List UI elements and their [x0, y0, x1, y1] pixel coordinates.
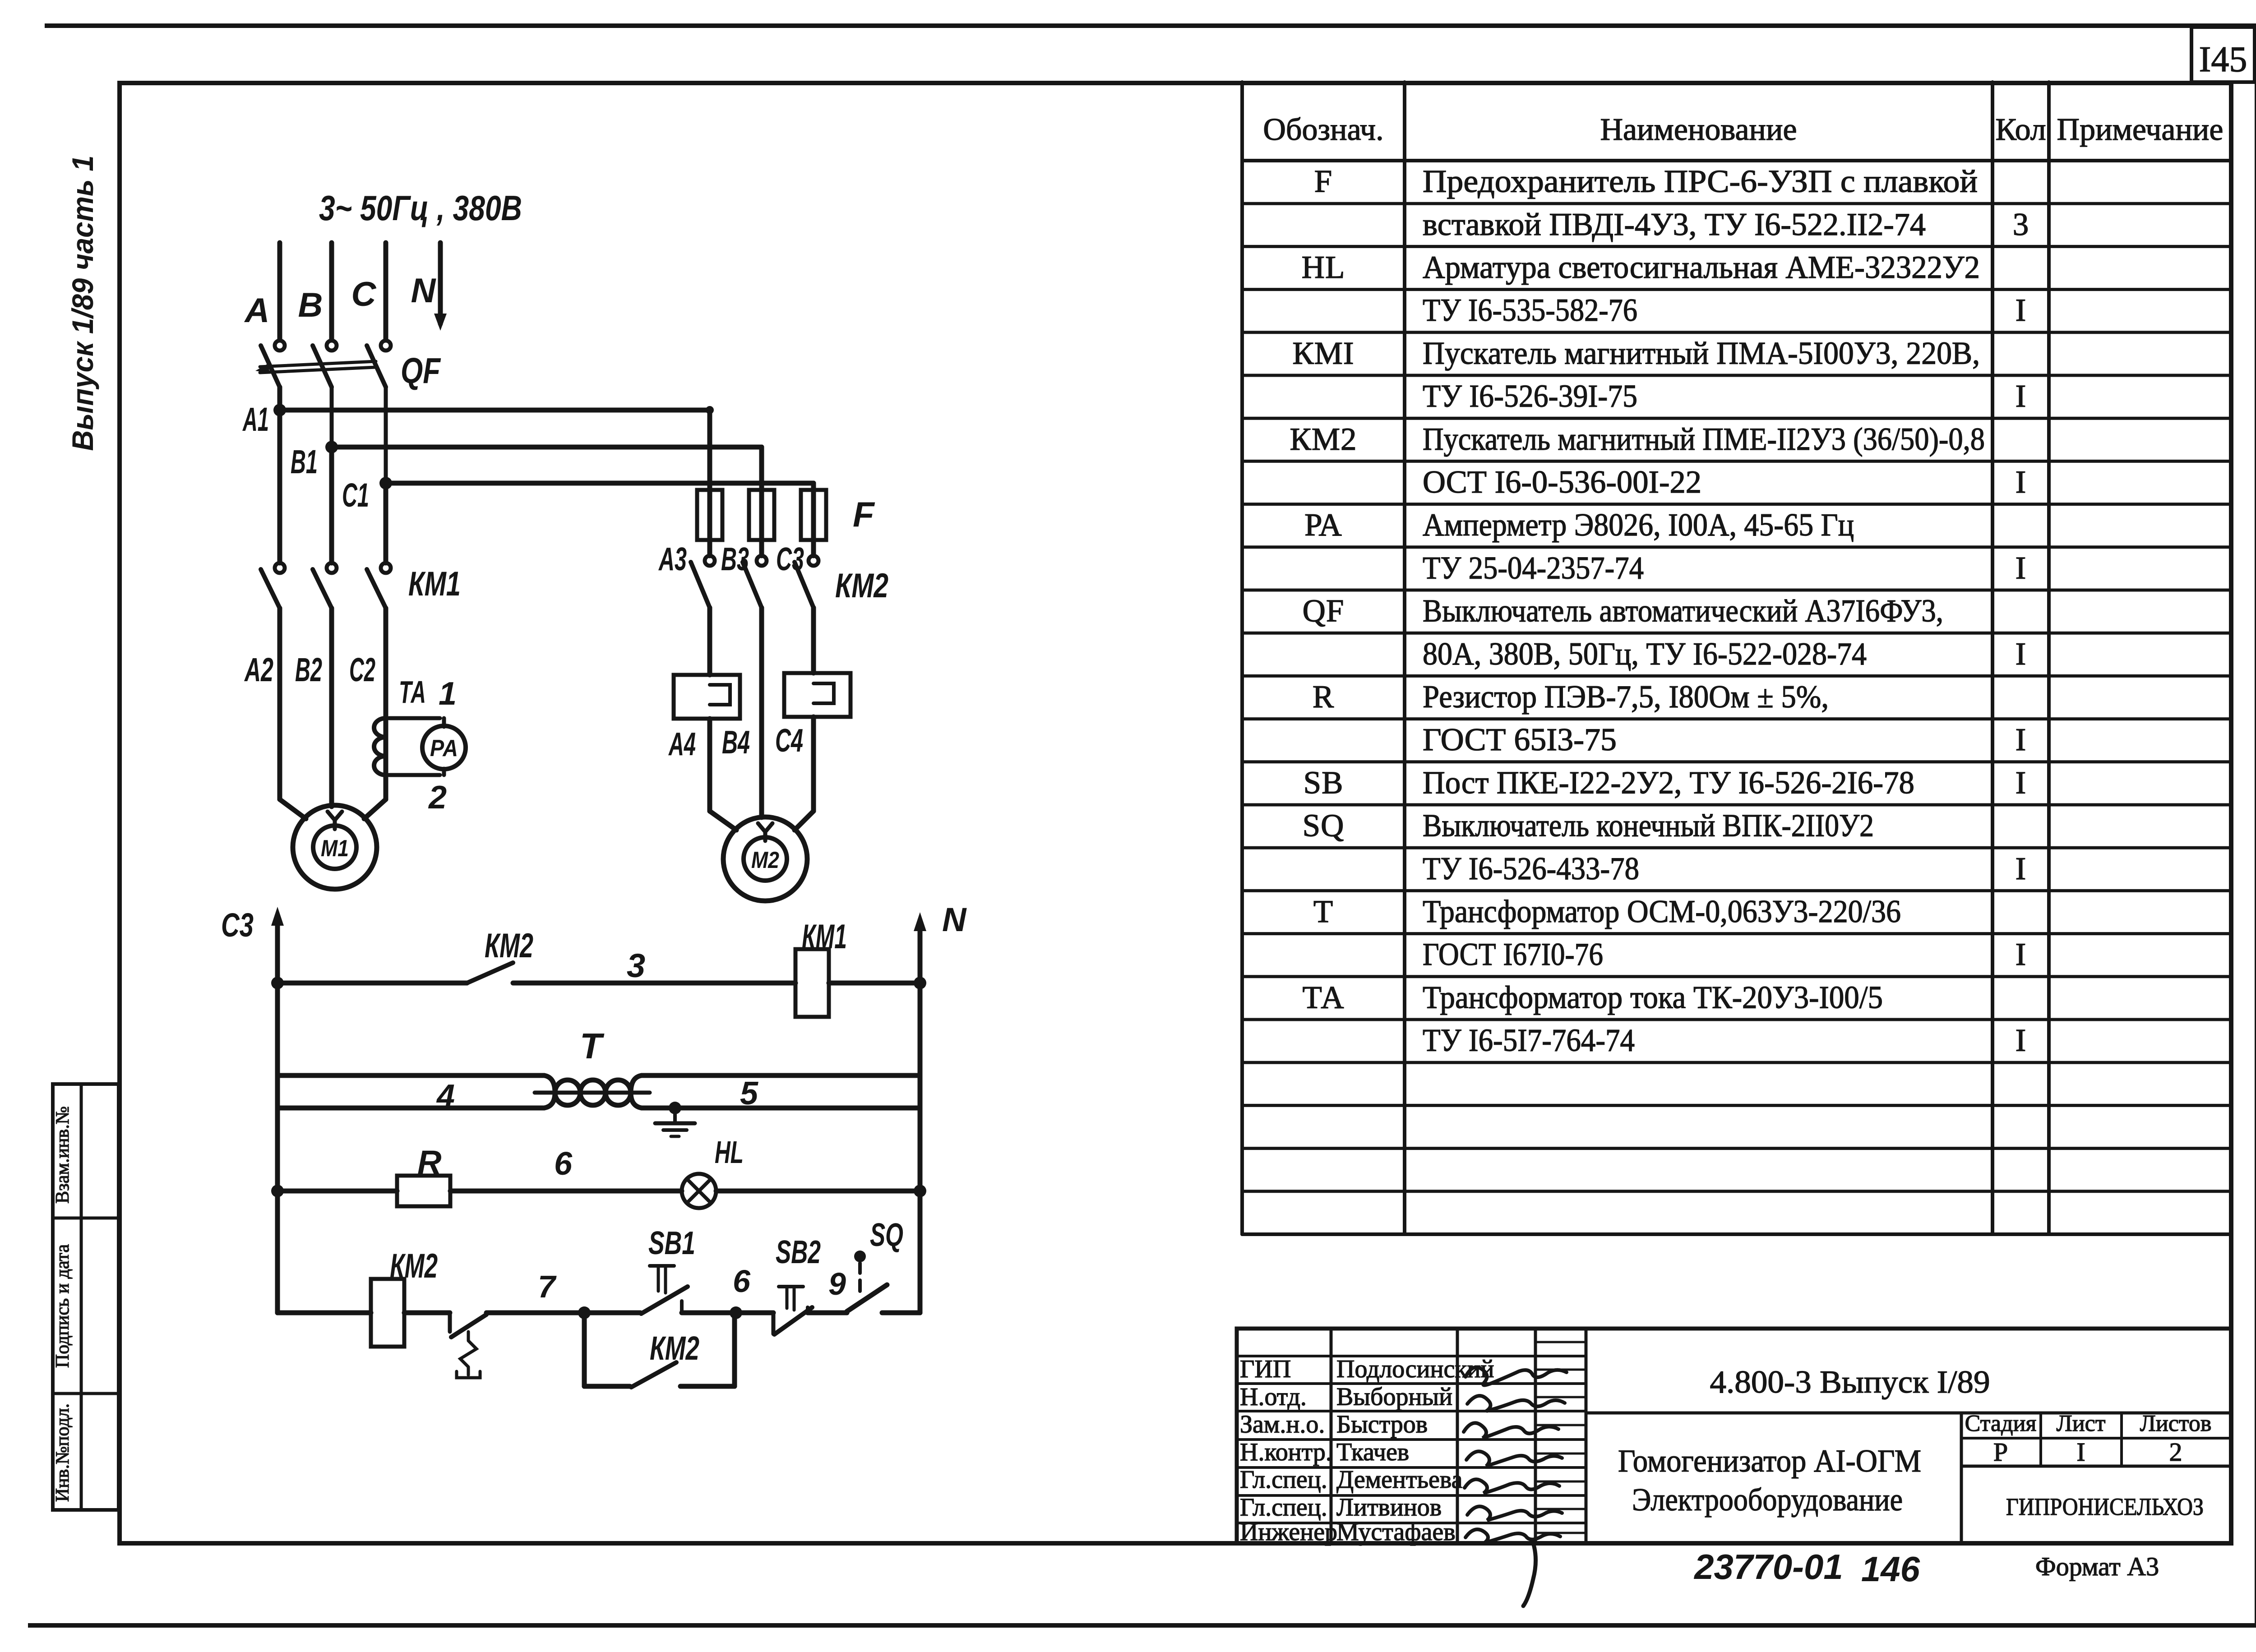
svg-text:Гл.спец.: Гл.спец.: [1240, 1466, 1327, 1494]
svg-text:I: I: [2016, 550, 2026, 586]
svg-text:I: I: [2016, 637, 2026, 672]
svg-text:В1: В1: [291, 443, 318, 480]
svg-text:23770-01: 23770-01: [1693, 1547, 1843, 1587]
svg-text:ТУ I6-535-582-76: ТУ I6-535-582-76: [1423, 293, 1637, 328]
wire A3 to heater: [707, 608, 712, 675]
motor M2: [723, 817, 807, 901]
svg-text:SВ1: SВ1: [648, 1225, 695, 1261]
svg-text:Предохранитель ПРС-6-УЗП с пла: Предохранитель ПРС-6-УЗП с плавкой: [1423, 164, 1978, 199]
svg-text:Выключатель конечный ВПК-2II0У: Выключатель конечный ВПК-2II0У2: [1423, 808, 1874, 844]
svg-text:КМ1: КМ1: [802, 918, 847, 956]
svg-text:Наименование: Наименование: [1600, 112, 1797, 147]
svg-text:I: I: [2016, 765, 2026, 800]
svg-text:РА: РА: [430, 735, 458, 761]
svg-text:А1: А1: [242, 401, 269, 438]
svg-text:Инв.№подл.: Инв.№подл.: [52, 1403, 73, 1502]
wire C QF to KM1: [384, 387, 388, 483]
node B1: [325, 441, 338, 453]
svg-text:R: R: [1313, 679, 1334, 715]
limit switch SQ: [854, 1251, 866, 1262]
parts table grid: [1240, 82, 1244, 1234]
svg-text:ОСТ I6-0-536-00I-22: ОСТ I6-0-536-00I-22: [1423, 465, 1701, 500]
svg-text:Н.отд.: Н.отд.: [1240, 1383, 1307, 1411]
thermal element KK A-phase: [674, 675, 740, 719]
wire B1 to fuse branch: [332, 445, 762, 450]
svg-text:QF: QF: [1303, 594, 1345, 629]
svg-text:QF: QF: [401, 351, 441, 391]
contactor KM2 pole: [809, 556, 818, 566]
wire 3: [271, 977, 284, 989]
svg-text:С: С: [351, 275, 377, 314]
svg-text:Подпись и дата: Подпись и дата: [52, 1244, 73, 1368]
svg-text:Пост ПКЕ-I22-2У2, ТУ I6-526-2I: Пост ПКЕ-I22-2У2, ТУ I6-526-2I6-78: [1423, 765, 1914, 800]
svg-text:4: 4: [436, 1078, 455, 1114]
star point M1: [328, 812, 342, 829]
wire C3 to heater: [811, 608, 816, 673]
svg-text:146: 146: [1861, 1549, 1920, 1589]
contactor KM1 pole: [275, 563, 285, 573]
svg-text:2: 2: [2169, 1437, 2182, 1467]
wire A4 to motor M2: [707, 719, 712, 811]
svg-text:С3: С3: [776, 541, 804, 577]
star point M2: [758, 823, 772, 841]
svg-text:Мустафаев: Мустафаев: [1336, 1518, 1456, 1546]
svg-text:Дементьева: Дементьева: [1336, 1466, 1463, 1494]
svg-text:I: I: [2016, 722, 2026, 757]
svg-text:3: 3: [2013, 207, 2029, 242]
motor M1: [293, 805, 377, 889]
svg-text:Инженер: Инженер: [1240, 1518, 1337, 1546]
svg-text:R: R: [417, 1144, 441, 1181]
wire C4 to motor M2: [811, 717, 816, 811]
phase bus B: [329, 243, 334, 340]
neutral bus N with arrow: [438, 243, 443, 324]
left stamp column box: [53, 1084, 119, 1510]
svg-text:N: N: [411, 272, 437, 310]
svg-text:А4: А4: [668, 726, 696, 762]
svg-text:КМI: КМI: [1292, 336, 1354, 371]
svg-text:С3: С3: [221, 906, 254, 944]
svg-text:Гл.спец.: Гл.спец.: [1240, 1494, 1327, 1522]
svg-text:Выключатель автоматический А37: Выключатель автоматический А37I6ФУ3,: [1423, 594, 1943, 629]
svg-text:Литвинов: Литвинов: [1336, 1494, 1442, 1522]
node C1: [379, 477, 392, 489]
control rail C3 with up arrow: [275, 915, 280, 1313]
holding contact KM2 loop: [582, 1313, 587, 1386]
wire C2 to motor M1: [384, 608, 388, 799]
svg-text:7: 7: [538, 1269, 557, 1304]
svg-text:КМ2: КМ2: [650, 1329, 699, 1367]
svg-text:В2: В2: [295, 651, 322, 688]
contactor coil KM1: [795, 949, 829, 1017]
svg-text:С2: С2: [349, 651, 375, 688]
svg-text:ГОСТ I67I0-76: ГОСТ I67I0-76: [1423, 937, 1603, 972]
svg-text:Кол: Кол: [1995, 112, 2046, 147]
svg-text:М1: М1: [321, 835, 349, 862]
svg-text:Выпуск 1/89 часть 1: Выпуск 1/89 часть 1: [66, 156, 99, 451]
control rail N with up arrow: [918, 920, 923, 1313]
phase bus C: [384, 243, 388, 340]
svg-text:4.800-3 Выпуск I/89: 4.800-3 Выпуск I/89: [1710, 1365, 1990, 1400]
svg-text:HL: HL: [1302, 250, 1345, 285]
top border bar: [45, 23, 2256, 28]
svg-text:Р: Р: [1993, 1437, 2008, 1467]
svg-text:КМ2: КМ2: [835, 567, 888, 605]
svg-text:I: I: [2016, 1023, 2026, 1058]
svg-text:80А, 380В, 50Гц, ТУ I6-522-028: 80А, 380В, 50Гц, ТУ I6-522-028-74: [1423, 637, 1867, 672]
svg-text:F: F: [1314, 164, 1333, 199]
current transformer TA: [374, 718, 386, 775]
svg-text:Выборный: Выборный: [1336, 1383, 1452, 1411]
wire 6 row: [271, 1185, 284, 1197]
svg-text:ТУ I6-526-433-78: ТУ I6-526-433-78: [1423, 851, 1639, 886]
svg-text:Лист: Лист: [2057, 1411, 2106, 1436]
breaker QF pole contact: [327, 341, 337, 351]
svg-text:1: 1: [439, 676, 457, 712]
svg-text:SQ: SQ: [1303, 808, 1345, 844]
contactor KM2 pole: [757, 556, 767, 566]
svg-text:SВ: SВ: [1304, 765, 1344, 800]
fuse F: [697, 490, 722, 540]
svg-text:КМ1: КМ1: [408, 565, 461, 603]
svg-text:вставкой ПВДI-4У3, ТУ I6-522.: вставкой ПВДI-4У3, ТУ I6-522.II2-74: [1423, 207, 1926, 242]
svg-text:I: I: [2016, 379, 2026, 414]
fuse F: [801, 490, 826, 540]
contact KM2 NO in wire 3: [467, 963, 513, 983]
svg-text:Электрооборудование: Электрооборудование: [1632, 1482, 1903, 1518]
breaker QF pole contact: [275, 341, 285, 351]
ammeter PA: [422, 726, 466, 769]
resistor R: [397, 1176, 450, 1206]
bottom outer border: [28, 1623, 2256, 1628]
node A1: [273, 404, 286, 416]
svg-text:В4: В4: [722, 724, 750, 761]
contactor KM1 pole: [381, 563, 391, 573]
svg-text:КМ2: КМ2: [390, 1247, 438, 1285]
svg-text:ТУ I6-5I7-764-74: ТУ I6-5I7-764-74: [1423, 1023, 1635, 1058]
sheet number box 145: [2191, 27, 2255, 82]
svg-text:I: I: [2016, 465, 2026, 500]
title block outline: [1237, 1329, 2231, 1543]
svg-text:Ткачев: Ткачев: [1336, 1438, 1409, 1466]
svg-text:КМ2: КМ2: [485, 927, 533, 965]
svg-text:Пускатель магнитный ПМА-5I00У3: Пускатель магнитный ПМА-5I00У3, 220В,: [1423, 336, 1980, 371]
svg-text:Гомогенизатор АI-ОГМ: Гомогенизатор АI-ОГМ: [1618, 1444, 1921, 1479]
svg-text:5: 5: [740, 1075, 758, 1112]
svg-text:Арматура светосигнальная АМЕ-3: Арматура светосигнальная АМЕ-32322У2: [1423, 250, 1980, 285]
svg-text:Пускатель магнитный ПМЕ-II2У3: Пускатель магнитный ПМЕ-II2У3 (36/50)-0,…: [1423, 422, 1985, 457]
transformer T primary: [277, 1073, 544, 1078]
svg-text:ГИП: ГИП: [1240, 1355, 1291, 1383]
svg-text:SQ: SQ: [870, 1217, 903, 1253]
ground on secondary: [669, 1102, 681, 1114]
wire B3 down: [759, 608, 764, 817]
svg-text:I: I: [2016, 851, 2026, 886]
svg-text:I: I: [2016, 293, 2026, 328]
contactor coil KM2: [371, 1279, 404, 1347]
svg-text:А: А: [244, 291, 270, 330]
transformer T secondary: [277, 1106, 544, 1111]
pushbutton SB1 NO: [584, 1311, 640, 1315]
svg-text:6: 6: [733, 1264, 751, 1299]
svg-text:Быстров: Быстров: [1336, 1411, 1428, 1439]
svg-text:ТУ I6-526-39I-75: ТУ I6-526-39I-75: [1423, 379, 1637, 414]
svg-text:Трансформатор тока ТК-20У3-I00: Трансформатор тока ТК-20У3-I00/5: [1423, 980, 1883, 1015]
svg-text:А3: А3: [658, 541, 687, 577]
breaker QF pole contact: [381, 341, 391, 351]
thermal release symbol: [460, 1332, 476, 1375]
svg-text:HL: HL: [715, 1135, 744, 1170]
phase bus A: [277, 243, 282, 340]
wire C1 to fuse branch: [386, 481, 814, 486]
breaker QF linkage bar: [260, 361, 376, 367]
lamp HL: [682, 1174, 716, 1208]
svg-text:В3: В3: [721, 541, 749, 577]
svg-text:Трансформатор ОСМ-0,063У3-220/: Трансформатор ОСМ-0,063У3-220/36: [1423, 894, 1901, 929]
svg-text:I: I: [2016, 937, 2026, 972]
svg-text:РА: РА: [1304, 508, 1342, 543]
bottom control row: [277, 1311, 371, 1315]
svg-text:КМ2: КМ2: [1290, 422, 1357, 457]
svg-text:3~ 50Гц , 380В: 3~ 50Гц , 380В: [319, 188, 522, 228]
wire A1 to fuse branch: [280, 408, 710, 413]
pushbutton SB2 NC: [736, 1311, 773, 1315]
fuse F: [749, 490, 774, 540]
svg-text:А2: А2: [244, 651, 273, 688]
svg-text:ТА: ТА: [399, 674, 426, 710]
svg-text:2: 2: [428, 780, 447, 816]
svg-text:ТА: ТА: [1302, 980, 1344, 1015]
contactor KM1 pole: [327, 563, 337, 573]
wire A QF to KM1: [277, 387, 282, 410]
svg-text:ТУ 25-04-2357-74: ТУ 25-04-2357-74: [1423, 550, 1644, 586]
signatures squiggles: [1465, 1367, 1567, 1385]
transformer T core: [535, 1091, 650, 1095]
svg-text:I45: I45: [2199, 40, 2247, 79]
wire A2 to motor M1: [277, 608, 282, 799]
svg-text:SВ2: SВ2: [776, 1234, 821, 1270]
svg-text:Амперметр Э8026, I00А, 45-65 Г: Амперметр Э8026, I00А, 45-65 Гц: [1423, 508, 1854, 543]
svg-text:6: 6: [554, 1146, 573, 1182]
svg-text:ГОСТ 65I3-75: ГОСТ 65I3-75: [1423, 722, 1617, 757]
svg-text:Н.контр.: Н.контр.: [1240, 1438, 1332, 1466]
wire B2 to motor M1: [329, 608, 334, 807]
svg-text:С4: С4: [775, 723, 803, 759]
svg-text:ГИПРОНИСЕЛЬХОЗ: ГИПРОНИСЕЛЬХОЗ: [2006, 1493, 2204, 1520]
svg-text:I: I: [2076, 1437, 2085, 1467]
svg-text:3: 3: [627, 947, 645, 984]
svg-text:Т: Т: [580, 1026, 605, 1066]
contactor KM2 pole: [705, 556, 715, 566]
svg-text:Резистор ПЭВ-7,5, I80Ом ± 5%,: Резистор ПЭВ-7,5, I80Ом ± 5%,: [1423, 679, 1829, 715]
svg-text:Формат А3: Формат А3: [2035, 1552, 2159, 1581]
svg-text:F: F: [853, 494, 875, 534]
thermal element KK C-phase: [784, 673, 851, 717]
right outer border: [2255, 23, 2256, 1628]
svg-text:Зам.н.о.: Зам.н.о.: [1240, 1411, 1325, 1439]
svg-text:Взам.инв.№: Взам.инв.№: [52, 1106, 73, 1204]
svg-text:В: В: [298, 286, 323, 324]
svg-text:9: 9: [828, 1266, 846, 1301]
svg-text:Стадия: Стадия: [1965, 1411, 2037, 1436]
wire B QF to KM1: [330, 387, 334, 447]
svg-text:Т: Т: [1313, 894, 1333, 929]
svg-text:Обознач.: Обознач.: [1263, 112, 1383, 147]
svg-text:М2: М2: [751, 847, 779, 873]
svg-text:Примечание: Примечание: [2057, 112, 2224, 147]
thermal relay contact KK: [448, 1313, 452, 1332]
svg-text:С1: С1: [342, 476, 369, 514]
svg-text:Листов: Листов: [2140, 1411, 2212, 1436]
svg-text:N: N: [942, 901, 967, 938]
